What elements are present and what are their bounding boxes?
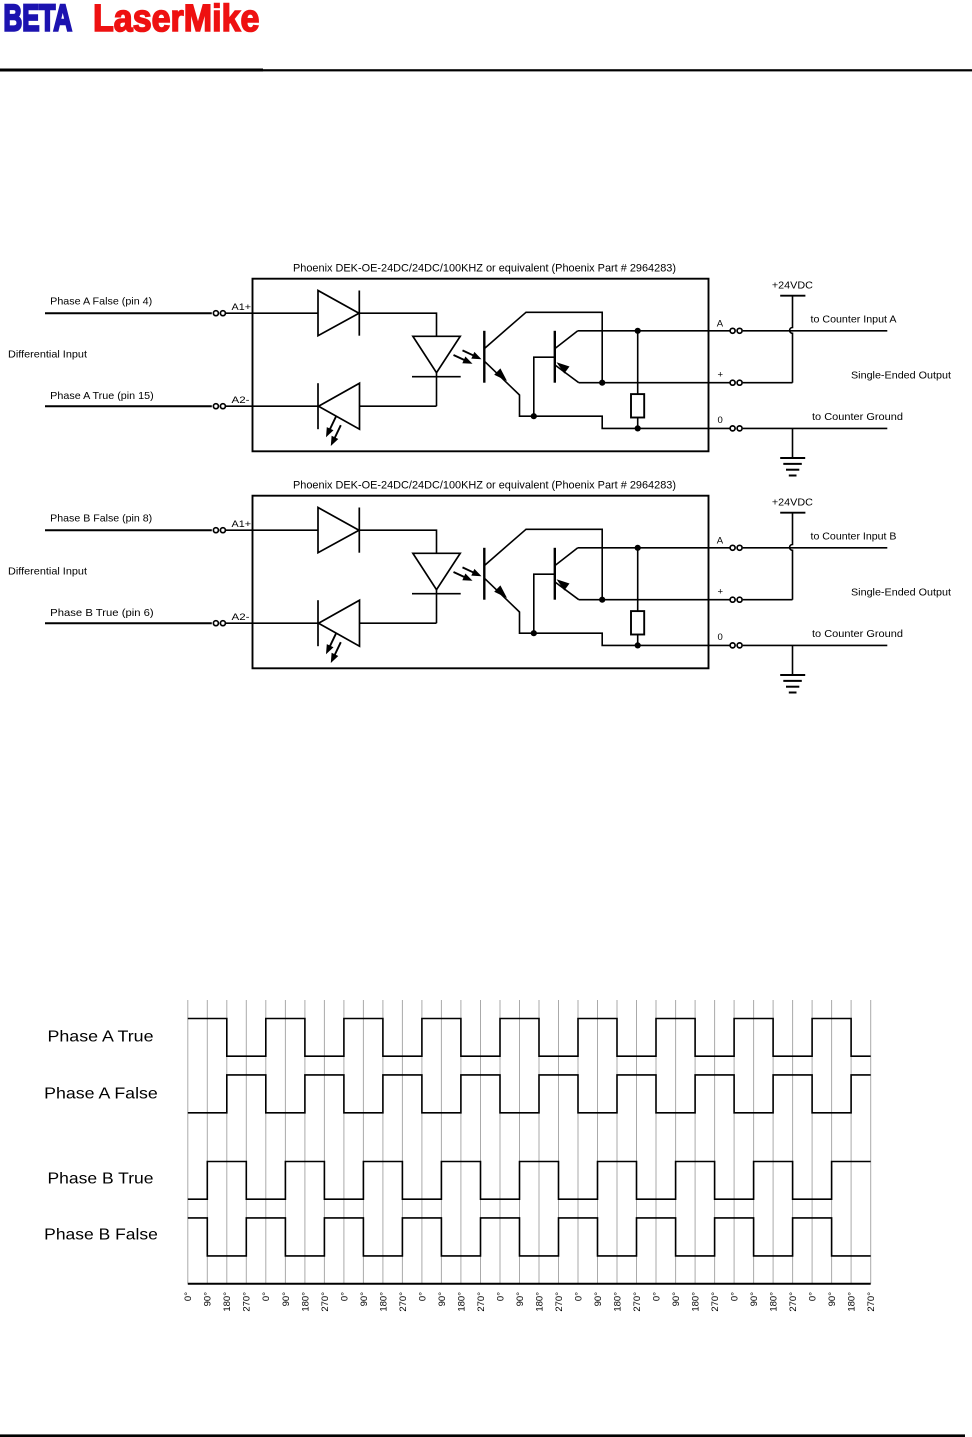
waveform Phase B False — [188, 1218, 871, 1256]
junction node + / Q1-collector (B) — [599, 597, 605, 603]
optocoupler module B box — [253, 496, 709, 669]
svg-text:270°: 270° — [632, 1292, 643, 1312]
svg-text:Differential Input: Differential Input — [8, 349, 87, 361]
wire input lead A2- (B) — [45, 622, 212, 624]
Q1 emitter arrow (A) — [494, 368, 507, 381]
svg-text:90°: 90° — [437, 1292, 448, 1307]
svg-text:0°: 0° — [495, 1292, 506, 1301]
ground symbol (A) — [780, 457, 805, 459]
wire +24VDC down with hop over A (A) — [790, 296, 793, 383]
svg-text:270°: 270° — [320, 1292, 331, 1312]
optocoupler module A box — [253, 279, 709, 452]
wire Q1 emitter to 0 rail (A) — [520, 395, 709, 429]
wire Q2 emitter to terminal + (A) — [579, 382, 709, 384]
wire input lead A1+ (A) — [45, 312, 212, 314]
LED D3 (B) — [413, 553, 460, 589]
wire 0 to counter ground (B) — [743, 644, 888, 646]
resistor R1 (A) — [637, 331, 639, 394]
wire terminal 0 stub (B) — [709, 644, 730, 646]
svg-text:270°: 270° — [710, 1292, 721, 1312]
svg-text:0°: 0° — [730, 1292, 741, 1301]
svg-text:270°: 270° — [398, 1292, 409, 1312]
waveform Phase A False — [188, 1075, 871, 1113]
wire Q2 collector to terminal A (B) — [578, 547, 709, 549]
wire terminal + stub (A) — [709, 382, 730, 384]
timing grid lines — [188, 1000, 871, 1284]
terminal 0 circles (B) — [730, 643, 735, 648]
svg-text:90°: 90° — [827, 1292, 838, 1307]
svg-text:0°: 0° — [339, 1292, 350, 1301]
svg-text:180°: 180° — [222, 1292, 233, 1312]
svg-text:Single-Ended Output: Single-Ended Output — [851, 370, 951, 381]
Q2 emitter arrow (A) — [557, 362, 570, 373]
waveform Phase B True — [188, 1162, 871, 1200]
svg-text:Phase B False: Phase B False — [44, 1227, 158, 1244]
wire 0 to counter ground (A) — [743, 427, 888, 429]
svg-text:90°: 90° — [203, 1292, 214, 1307]
terminal A1+ circles (A) — [213, 311, 218, 316]
svg-text:Differential Input: Differential Input — [8, 566, 87, 578]
svg-text:270°: 270° — [476, 1292, 487, 1312]
junction node 0 / resistor (A) — [635, 425, 641, 431]
header rule — [0, 69, 972, 71]
svg-text:90°: 90° — [671, 1292, 682, 1307]
svg-text:A: A — [717, 536, 724, 547]
wire Q2 base (A) — [534, 357, 554, 416]
svg-text:90°: 90° — [281, 1292, 292, 1307]
terminal A2- circles (B) — [213, 621, 218, 626]
terminal 0 circles (A) — [730, 426, 735, 431]
junction node A / resistor (B) — [635, 545, 641, 551]
svg-text:180°: 180° — [456, 1292, 467, 1312]
svg-text:+24VDC: +24VDC — [772, 496, 813, 508]
svg-text:90°: 90° — [359, 1292, 370, 1307]
LED D3 emission arrows (B) — [463, 567, 477, 573]
wire + to 24VDC drop (A) — [743, 382, 793, 384]
svg-text:0°: 0° — [417, 1292, 428, 1301]
svg-text:Phase B True: Phase B True — [48, 1171, 154, 1188]
wire A1+ to diode D1 (B) — [226, 529, 318, 531]
timing axis — [188, 1283, 871, 1285]
wire D2 to LED (B) — [360, 622, 437, 624]
wire A2- to diode D2 (B) — [226, 622, 319, 624]
transistor Q2 (B) — [554, 548, 556, 600]
svg-text:A: A — [717, 319, 724, 330]
wire +24VDC down with hop over A (B) — [790, 513, 793, 600]
wire 0 rail to ground (B) — [792, 645, 794, 675]
wire D1 to LED corner (B) — [359, 530, 436, 553]
wire terminal A stub (B) — [709, 547, 730, 549]
svg-text:+: + — [718, 370, 724, 381]
wire terminal 0 stub (A) — [709, 427, 730, 429]
junction node 0 / resistor (B) — [635, 642, 641, 648]
svg-text:Phoenix DEK-OE-24DC/24DC/100KH: Phoenix DEK-OE-24DC/24DC/100KHZ or equiv… — [293, 480, 676, 492]
diode D2 (B) — [319, 600, 360, 646]
terminal A2- circles (A) — [213, 404, 218, 409]
svg-text:270°: 270° — [554, 1292, 565, 1312]
svg-text:90°: 90° — [515, 1292, 526, 1307]
wire input lead A1+ (B) — [45, 529, 212, 531]
wire A to counter input (A) — [743, 330, 888, 332]
diode D2 emission arrows (B) — [329, 634, 337, 650]
svg-text:270°: 270° — [866, 1292, 877, 1312]
svg-text:A2-: A2- — [232, 395, 250, 406]
wire terminal + stub (B) — [709, 599, 730, 601]
svg-text:180°: 180° — [691, 1292, 702, 1312]
svg-text:90°: 90° — [749, 1292, 760, 1307]
svg-text:0°: 0° — [183, 1292, 194, 1301]
resistor R1 (B) — [637, 548, 639, 611]
svg-text:270°: 270° — [788, 1292, 799, 1312]
junction node Q1-emitter / Q2-base (B) — [531, 630, 537, 636]
LED D3 (A) — [413, 336, 460, 372]
junction node Q1-emitter / Q2-base (A) — [531, 413, 537, 419]
wire Q1 emitter to 0 rail (B) — [520, 612, 709, 646]
+24VDC supply bar (A) — [780, 295, 805, 297]
svg-text:90°: 90° — [593, 1292, 604, 1307]
svg-text:+24VDC: +24VDC — [772, 279, 813, 291]
svg-text:Phase A False: Phase A False — [44, 1085, 158, 1102]
svg-text:0°: 0° — [808, 1292, 819, 1301]
LED D3 emission arrows (A) — [463, 350, 477, 356]
transistor Q2 (A) — [554, 331, 556, 383]
+24VDC supply bar (B) — [780, 512, 805, 514]
wire A2- to diode D2 (A) — [226, 405, 319, 407]
svg-text:0: 0 — [718, 632, 723, 643]
footer rule — [0, 1434, 965, 1437]
phototransistor Q1 (A) — [483, 331, 485, 383]
svg-text:to Counter Input A: to Counter Input A — [811, 315, 897, 326]
svg-text:Phoenix DEK-OE-24DC/24DC/100KH: Phoenix DEK-OE-24DC/24DC/100KHZ or equiv… — [293, 263, 676, 275]
svg-text:180°: 180° — [847, 1292, 858, 1312]
ground symbol (B) — [780, 674, 805, 676]
svg-text:to Counter Input B: to Counter Input B — [811, 532, 898, 543]
svg-text:+: + — [718, 587, 724, 598]
terminal A circles (A) — [730, 328, 735, 333]
wire terminal A stub (A) — [709, 330, 730, 332]
svg-text:0: 0 — [718, 415, 723, 426]
junction node A / resistor (A) — [635, 328, 641, 334]
diode D1 (B) — [318, 508, 359, 553]
wire input lead A2- (A) — [45, 405, 212, 407]
wire 0 rail to ground (A) — [792, 428, 794, 458]
junction node + / Q1-collector (A) — [599, 380, 605, 386]
wire + to 24VDC drop (B) — [743, 599, 793, 601]
wire D2 to LED (A) — [360, 405, 437, 407]
diode D2 emission arrows (A) — [329, 417, 337, 433]
svg-text:0°: 0° — [261, 1292, 272, 1301]
wire A1+ to diode D1 (A) — [226, 312, 318, 314]
svg-text:Phase A True (pin 15): Phase A True (pin 15) — [50, 390, 154, 402]
svg-text:A1+: A1+ — [232, 519, 252, 530]
terminal + circles (A) — [730, 380, 735, 385]
svg-text:Phase B True (pin 6): Phase B True (pin 6) — [50, 607, 154, 619]
diode D1 (A) — [318, 291, 359, 336]
wire Q1 collector to + node (B) — [526, 529, 603, 599]
wire D1 to LED corner (A) — [359, 313, 436, 336]
svg-text:Phase A False (pin 4): Phase A False (pin 4) — [50, 296, 152, 308]
wire Q2 base (B) — [534, 574, 554, 633]
svg-text:A1+: A1+ — [232, 302, 252, 313]
terminal A1+ circles (B) — [213, 528, 218, 533]
svg-text:180°: 180° — [769, 1292, 780, 1312]
wire Q2 collector to terminal A (A) — [578, 330, 709, 332]
terminal + circles (B) — [730, 597, 735, 602]
wire A to counter input (B) — [743, 547, 888, 549]
wire Q1 collector to + node (A) — [526, 312, 603, 382]
svg-text:LaserMike: LaserMike — [93, 0, 259, 39]
svg-text:0°: 0° — [573, 1292, 584, 1301]
degree axis labels — [183, 1292, 877, 1312]
svg-text:180°: 180° — [534, 1292, 545, 1312]
waveform Phase A True — [188, 1019, 871, 1057]
diode D2 (A) — [319, 383, 360, 429]
svg-text:to Counter Ground: to Counter Ground — [812, 412, 903, 423]
terminal A circles (B) — [730, 545, 735, 550]
svg-text:180°: 180° — [300, 1292, 311, 1312]
svg-text:Phase B False (pin 8): Phase B False (pin 8) — [50, 513, 152, 525]
svg-text:0°: 0° — [651, 1292, 662, 1301]
svg-text:Single-Ended Output: Single-Ended Output — [851, 587, 951, 598]
svg-text:to Counter Ground: to Counter Ground — [812, 629, 903, 640]
Q2 emitter arrow (B) — [557, 579, 570, 590]
svg-text:180°: 180° — [378, 1292, 389, 1312]
wire Q2 emitter to terminal + (B) — [579, 599, 709, 601]
svg-text:A2-: A2- — [232, 612, 250, 623]
svg-text:180°: 180° — [612, 1292, 623, 1312]
Q1 emitter arrow (B) — [494, 585, 507, 598]
svg-text:270°: 270° — [242, 1292, 253, 1312]
phototransistor Q1 (B) — [483, 548, 485, 600]
svg-text:BETA: BETA — [4, 0, 73, 39]
svg-text:Phase A True: Phase A True — [48, 1029, 154, 1046]
